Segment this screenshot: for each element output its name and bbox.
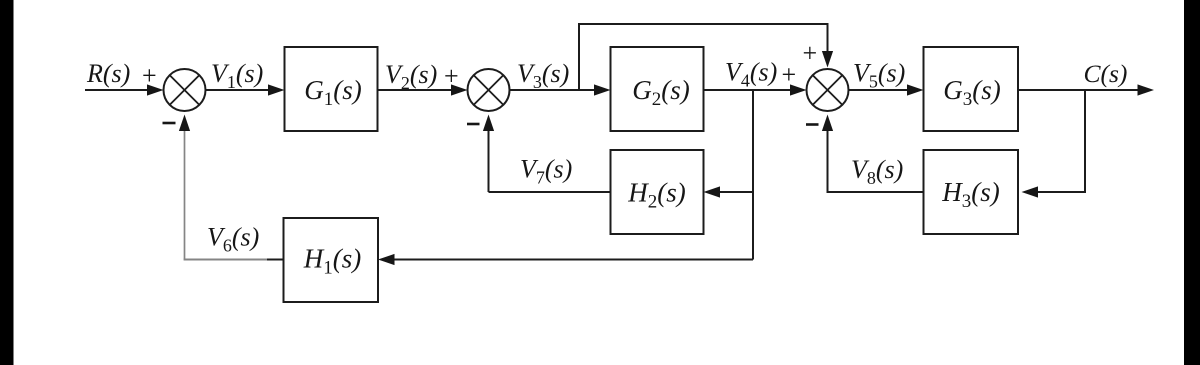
svg-text:V3(s): V3(s) bbox=[517, 59, 569, 92]
svg-text:V8(s): V8(s) bbox=[851, 155, 903, 188]
svg-text:G1(s): G1(s) bbox=[304, 75, 362, 110]
svg-text:+: + bbox=[782, 60, 797, 89]
svg-text:H1(s): H1(s) bbox=[303, 244, 362, 279]
svg-text:R(s): R(s) bbox=[86, 59, 130, 88]
svg-text:G2(s): G2(s) bbox=[632, 75, 690, 110]
svg-text:V5(s): V5(s) bbox=[853, 59, 905, 92]
svg-text:V1(s): V1(s) bbox=[211, 59, 263, 92]
svg-text:G3(s): G3(s) bbox=[943, 75, 1001, 110]
svg-text:V6(s): V6(s) bbox=[207, 223, 259, 256]
svg-text:V2(s): V2(s) bbox=[385, 60, 437, 93]
svg-text:+: + bbox=[444, 62, 459, 91]
svg-text:+: + bbox=[142, 61, 157, 90]
svg-text:V7(s): V7(s) bbox=[520, 155, 572, 188]
svg-text:H3(s): H3(s) bbox=[941, 177, 1000, 212]
svg-text:+: + bbox=[803, 39, 818, 68]
svg-text:C(s): C(s) bbox=[1084, 59, 1128, 88]
svg-text:V4(s): V4(s) bbox=[725, 58, 777, 91]
svg-text:H2(s): H2(s) bbox=[627, 178, 686, 213]
